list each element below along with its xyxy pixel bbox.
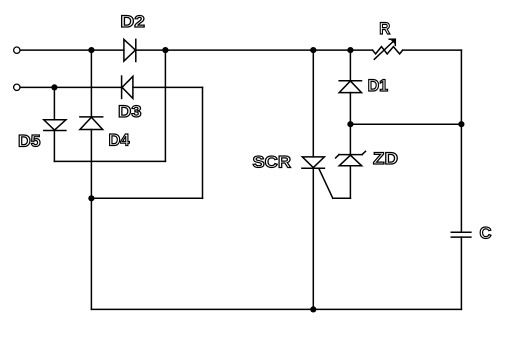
wire horizontal y=124.2 to right vertical [350,123,461,125]
node junction at x=350.4 on top rail (D1/R branch) [347,47,353,53]
node junction at x=313.3 on top rail (SCR anode branch) [310,47,316,53]
wire top rail from J1 to D2 anode [20,49,124,51]
node junction at (350.4,124.2) [347,121,353,127]
wire from R to top-right corner [403,49,462,51]
wire horizontal y=198.3 back to left junction [91,197,202,199]
wire top rail from D2 cathode to resistor R [136,49,373,51]
svg-text:C: C [480,223,492,242]
wire from D1 anode to junction (350.4,124.2) [349,93,351,125]
svg-text:D5: D5 [18,132,41,151]
svg-text:R: R [379,19,390,38]
wire ZD anode down to gate run [349,166,351,199]
node junction at x=165.4 on top rail (D2 cathode) [162,47,168,53]
terminal J2 (bottom input) [14,84,20,90]
wire from D5 cathode down to y=161.4 [53,131,55,162]
svg-text:D1: D1 [368,76,389,95]
wire vertical x=165.4 from top rail to y=161.4 [164,50,166,161]
wire from D3 anode to right [133,86,203,88]
diode D3 (points left) [122,76,133,98]
wire vertical x=350.4 from top rail to D1 cathode [349,50,351,81]
wire gate horizontal y=198.3 [333,197,351,199]
capacitor C [451,232,471,237]
SCR (thyristor, points down) [302,157,333,198]
node junction at x=54.4 on lower rail (D5 branch) [51,84,57,90]
wire left vertical x=91.4 lower (D4 anode to bottom rail) [90,130,92,310]
wire horizontal y=161.4 from x=54.4 to x=165.4 [54,160,165,162]
resistor R arrow [374,39,395,59]
node junction at (313.3,309.4) [310,306,316,312]
wire right side vertical (top) [460,50,462,232]
diode D4 (points up) [80,117,103,130]
resistor R zigzag (variable) [373,47,403,54]
wire lower rail from J2 to D3 cathode [20,86,121,88]
node junction at x=91.4 on top rail [88,47,94,53]
svg-text:D2: D2 [120,12,144,31]
svg-text:D4: D4 [109,131,131,150]
wire bottom rail [91,308,461,310]
wire vertical x=54.4 from lower rail to D5 anode [53,87,55,119]
wire vertical x=313.3 from top rail to SCR anode [312,50,314,157]
node junction at (461.4,124.2) [458,121,464,127]
wire vertical x=202.5 down [202,87,204,198]
svg-text:ZD: ZD [373,149,398,168]
diode D2 (points right) [124,39,136,61]
wire right vertical below capacitor [460,237,462,309]
svg-text:SCR: SCR [253,153,292,172]
node junction at (91.4,198.3) [88,195,94,201]
diode D5 (points down) [44,120,66,131]
svg-text:D3: D3 [118,102,142,121]
diode D1 (points up) [339,81,361,93]
zener diode ZD (points up, cathode bar with wings) [336,151,366,166]
terminal J1 (top input) [14,47,20,53]
wire left vertical x=91.4 upper (top rail to D4 cathode) [90,50,92,117]
wire SCR cathode down to bottom rail [312,168,314,309]
wire from junction down to ZD cathode [349,124,351,154]
